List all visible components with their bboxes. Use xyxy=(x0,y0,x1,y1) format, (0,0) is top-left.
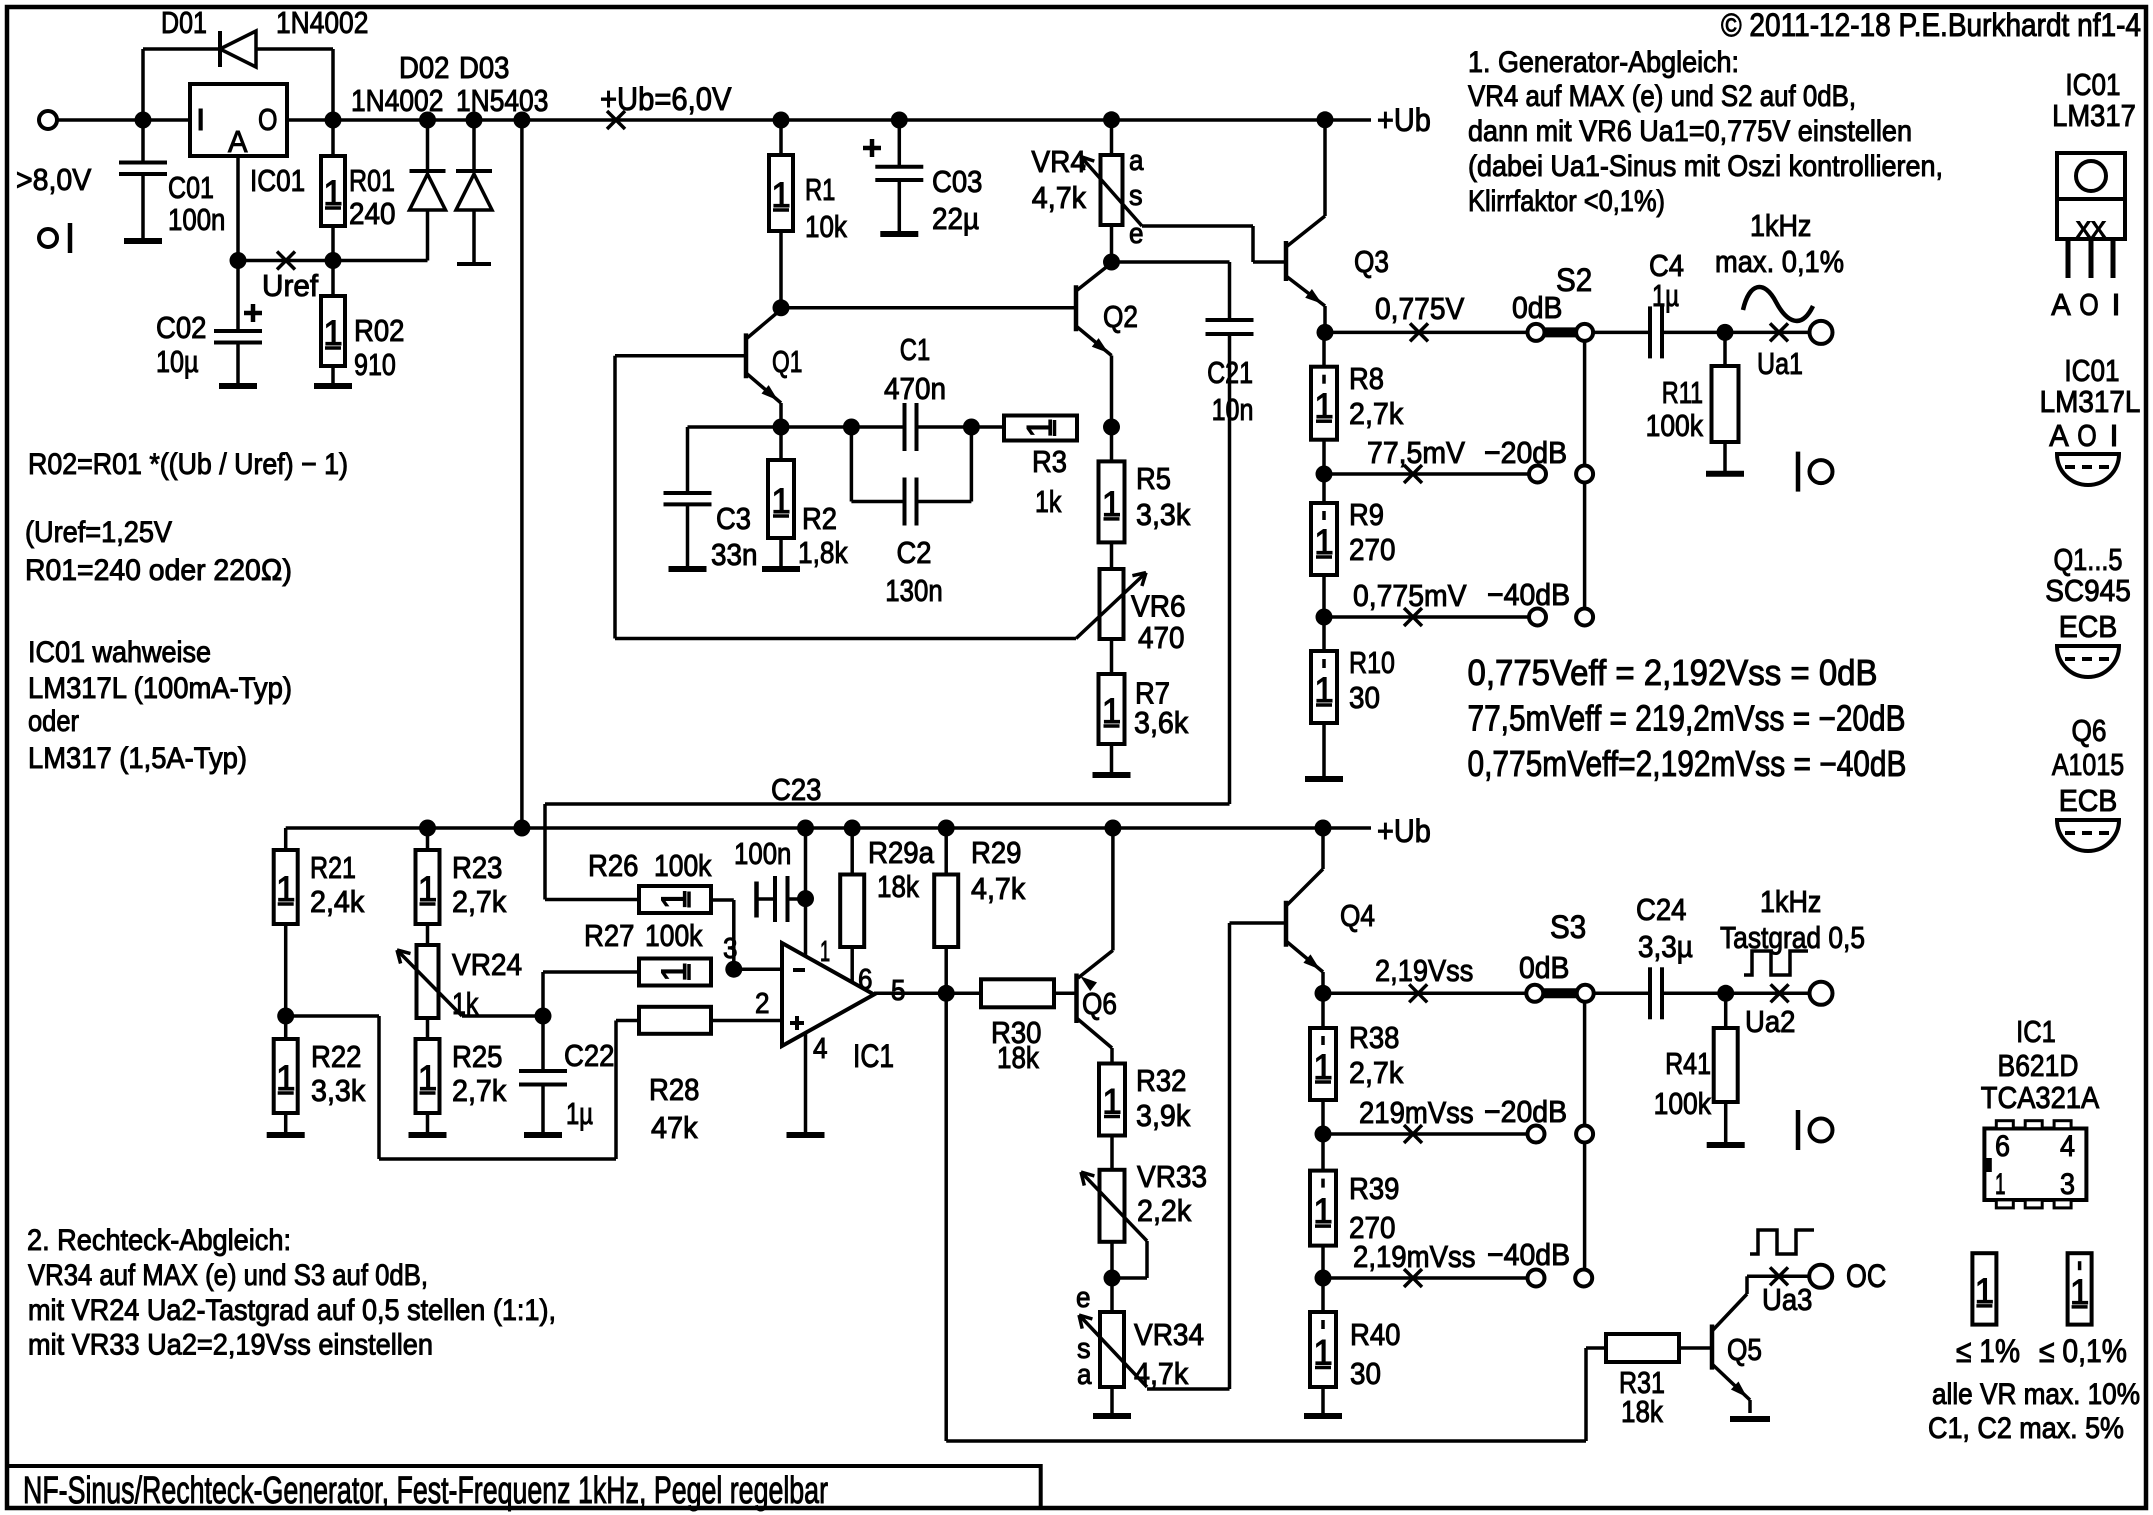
wiper wire VR34 to Q4 base xyxy=(1147,1387,1230,1391)
ground xyxy=(762,566,800,572)
wire xyxy=(1679,1346,1710,1350)
ground pin4 xyxy=(787,1132,825,1138)
ground xyxy=(669,566,707,572)
svg-text:0,775mV: 0,775mV xyxy=(1353,578,1467,613)
node lower rail x522 xyxy=(513,820,530,837)
ground xyxy=(219,383,257,389)
resistor R29a xyxy=(850,828,854,875)
svg-text:30: 30 xyxy=(1349,680,1380,715)
transistor Q1 xyxy=(744,333,749,378)
svg-text:−40dB: −40dB xyxy=(1487,1237,1570,1272)
node R23 rail xyxy=(419,820,436,837)
svg-text:I: I xyxy=(2111,287,2120,322)
node Q4 emitter xyxy=(1315,985,1332,1002)
svg-text:C24: C24 xyxy=(1636,892,1687,927)
title box xyxy=(7,1466,1041,1508)
resistor R02 xyxy=(331,261,335,297)
resistor R31 xyxy=(1606,1334,1679,1362)
svg-text:Uref: Uref xyxy=(262,268,318,303)
svg-text:3: 3 xyxy=(723,933,738,965)
sine symbol xyxy=(1743,287,1813,321)
wire op-amp to R31 xyxy=(944,993,948,1441)
svg-text:a: a xyxy=(1129,145,1144,177)
terminal signal ground lower xyxy=(1796,1110,1801,1150)
svg-text:+Ub=6,0V: +Ub=6,0V xyxy=(600,81,732,117)
resistor R23 xyxy=(426,828,430,850)
wire rail xyxy=(616,118,1371,122)
svg-text:Ua1: Ua1 xyxy=(1757,346,1803,381)
wire xyxy=(1662,992,1811,996)
op-amp IC1 xyxy=(782,943,874,1046)
transistor Q6 xyxy=(1074,974,1079,1024)
wire 2,19mVss xyxy=(1323,1276,1528,1280)
svg-text:47k: 47k xyxy=(651,1110,698,1145)
svg-text:33n: 33n xyxy=(711,537,758,572)
node -20dB lower xyxy=(1315,1126,1332,1143)
svg-text:VR34 auf MAX (e) und S3 auf 0d: VR34 auf MAX (e) und S3 auf 0dB, xyxy=(28,1259,428,1292)
svg-text:Tastgrad 0,5: Tastgrad 0,5 xyxy=(1720,920,1865,955)
node Q6 rail xyxy=(1104,820,1121,837)
svg-text:−40dB: −40dB xyxy=(1487,577,1570,612)
capacitor C21 xyxy=(1112,260,1230,264)
wire 0dB xyxy=(1325,331,1528,335)
ground xyxy=(524,1132,562,1138)
svg-text:R40: R40 xyxy=(1350,1317,1401,1352)
svg-text:18k: 18k xyxy=(877,869,919,904)
svg-text:C2: C2 xyxy=(897,535,932,570)
wire pin1 xyxy=(804,828,808,956)
ground VR34 xyxy=(1093,1413,1131,1419)
x mark +Ub xyxy=(607,111,625,129)
node C2 right xyxy=(963,419,980,436)
ground xyxy=(1093,772,1131,778)
diode D02 xyxy=(426,120,430,171)
svg-text:2,4k: 2,4k xyxy=(310,884,365,919)
ground Q5 xyxy=(1730,1416,1770,1422)
wire node to R28 xyxy=(286,1014,379,1018)
svg-text:C1: C1 xyxy=(900,332,930,367)
resistor R5 xyxy=(1110,427,1114,461)
svg-text:O: O xyxy=(258,102,278,137)
resistor R38 xyxy=(1321,993,1325,1028)
svg-text:C01: C01 xyxy=(168,170,214,205)
node R3 right xyxy=(1103,419,1120,436)
svg-text:R01=240 oder 220Ω): R01=240 oder 220Ω) xyxy=(25,554,292,587)
resistor R9 xyxy=(1322,474,1326,503)
resistor R11 xyxy=(1723,332,1727,366)
wire to lower section xyxy=(520,120,524,828)
capacitor C3 xyxy=(686,427,690,492)
svg-text:77,5mVeff = 219,2mVss = −20dB: 77,5mVeff = 219,2mVss = −20dB xyxy=(1468,698,1906,739)
node Q1 collector xyxy=(773,299,790,316)
pin4 ground wire xyxy=(804,1033,808,1133)
node VR33/VR34 xyxy=(1104,1270,1121,1287)
capacitor C22 xyxy=(541,1016,545,1070)
svg-text:219mVss: 219mVss xyxy=(1359,1095,1474,1130)
svg-text:A: A xyxy=(2051,287,2071,322)
svg-text:5: 5 xyxy=(891,975,906,1007)
node VR4/Q2/C21 xyxy=(1103,254,1120,271)
svg-text:1µ: 1µ xyxy=(1652,278,1679,313)
svg-text:77,5mV: 77,5mV xyxy=(1367,435,1465,470)
svg-text:R23: R23 xyxy=(452,850,503,885)
svg-text:LM317 (1,5A-Typ): LM317 (1,5A-Typ) xyxy=(28,742,247,775)
potentiometer VR6 xyxy=(1110,542,1114,569)
svg-text:Ua3: Ua3 xyxy=(1762,1282,1813,1317)
svg-text:I: I xyxy=(196,102,205,137)
capacitor C2 xyxy=(850,427,854,502)
svg-text:6: 6 xyxy=(858,964,873,996)
ground xyxy=(314,383,352,389)
switch S3 -40dB xyxy=(1528,1270,1545,1287)
svg-text:LM317L: LM317L xyxy=(2040,384,2141,419)
svg-text:R41: R41 xyxy=(1665,1046,1711,1081)
wire 219mVss xyxy=(1323,1132,1528,1136)
svg-text:A: A xyxy=(2049,418,2069,453)
node R29a rail xyxy=(844,820,861,837)
svg-text:LM317: LM317 xyxy=(2052,98,2136,133)
svg-text:IC1: IC1 xyxy=(2016,1014,2056,1049)
svg-text:R02=R01 *((Ub / Uref) − 1): R02=R01 *((Ub / Uref) − 1) xyxy=(28,448,348,481)
node C22 xyxy=(535,1008,552,1025)
svg-text:R10: R10 xyxy=(1349,645,1395,680)
svg-text:470: 470 xyxy=(1138,620,1185,655)
TO-220 package xyxy=(2057,153,2125,239)
wire 0dB lower xyxy=(1323,992,1526,996)
resistor R1 xyxy=(773,112,790,129)
svg-text:s: s xyxy=(1129,180,1143,212)
potentiometer VR33 xyxy=(1110,1136,1114,1170)
wire xyxy=(1593,331,1650,335)
svg-text:R21: R21 xyxy=(310,850,356,885)
input terminal - xyxy=(39,229,57,247)
svg-text:910: 910 xyxy=(354,347,396,382)
switch S3 -20dB xyxy=(1528,1126,1545,1143)
terminal Ua2 xyxy=(1810,982,1833,1005)
svg-text:TCA321A: TCA321A xyxy=(1981,1080,2100,1115)
svg-text:NF-Sinus/Rechteck-Generator, F: NF-Sinus/Rechteck-Generator, Fest-Freque… xyxy=(23,1470,828,1512)
transistor Q5 xyxy=(1710,1325,1715,1370)
svg-text:mit VR33 Ua2=2,19Vss einstelle: mit VR33 Ua2=2,19Vss einstellen xyxy=(28,1329,433,1362)
svg-text:R27: R27 xyxy=(584,918,635,953)
resistor R40 xyxy=(1321,1278,1325,1312)
transistor Q4 xyxy=(1284,901,1289,947)
resistor R8 xyxy=(1322,332,1326,366)
wire -40dB xyxy=(1324,615,1529,619)
svg-text:R5: R5 xyxy=(1136,461,1171,496)
svg-text:≤ 1%: ≤ 1% xyxy=(1956,1333,2020,1369)
svg-text:1k: 1k xyxy=(1035,484,1062,519)
svg-text:+Ub: +Ub xyxy=(1377,102,1431,138)
svg-text:IC01: IC01 xyxy=(250,163,305,198)
wire pin2 xyxy=(711,1019,782,1023)
svg-text:I: I xyxy=(2109,418,2118,453)
svg-text:max. 0,1%: max. 0,1% xyxy=(1715,244,1844,279)
square wave symbol OC xyxy=(1750,1230,1814,1254)
capacitor C1 xyxy=(903,403,907,451)
feedback wire xyxy=(613,356,617,639)
svg-text:0dB: 0dB xyxy=(1519,950,1570,985)
node -40dB lower xyxy=(1315,1270,1332,1287)
capacitor C03 + xyxy=(891,112,908,129)
svg-text:2. Rechteck-Abgleich:: 2. Rechteck-Abgleich: xyxy=(27,1224,291,1257)
svg-text:Q6: Q6 xyxy=(2072,713,2107,748)
svg-text:R29a: R29a xyxy=(868,835,935,870)
TO-92 outline 2 xyxy=(2057,646,2119,677)
regulator IC01 xyxy=(190,84,287,156)
svg-text:C1, C2 max. 5%: C1, C2 max. 5% xyxy=(1928,1412,2124,1445)
svg-text:2,7k: 2,7k xyxy=(1349,1055,1404,1090)
svg-text:Q5: Q5 xyxy=(1727,1332,1762,1367)
wire VR34 ground xyxy=(1110,1387,1114,1413)
svg-text:−20dB: −20dB xyxy=(1484,435,1567,470)
svg-text:2,2k: 2,2k xyxy=(1137,1193,1192,1228)
svg-text:0,775Veff = 2,192Vss = 0dB: 0,775Veff = 2,192Vss = 0dB xyxy=(1468,652,1878,693)
node R21/R22 xyxy=(277,1008,294,1025)
wire xyxy=(1054,992,1075,996)
svg-text:R1: R1 xyxy=(805,172,835,207)
svg-text:1,8k: 1,8k xyxy=(798,535,848,570)
svg-text:C03: C03 xyxy=(932,164,983,199)
capacitor C4 xyxy=(1648,306,1652,358)
wire xyxy=(1662,331,1811,335)
svg-text:VR33: VR33 xyxy=(1137,1159,1207,1194)
capacitor C02 + xyxy=(236,261,240,331)
ground xyxy=(1706,471,1744,477)
node Q3 emitter xyxy=(1317,324,1334,341)
svg-text:R28: R28 xyxy=(649,1072,700,1107)
svg-text:6: 6 xyxy=(1995,1130,2010,1163)
svg-text:© 2011-12-18 P.E.Burkhardt nf1: © 2011-12-18 P.E.Burkhardt nf1-4 xyxy=(1721,7,2141,43)
svg-text:4: 4 xyxy=(813,1033,828,1065)
resistor R39 xyxy=(1321,1134,1325,1171)
open stub xyxy=(68,223,73,253)
svg-text:270: 270 xyxy=(1349,532,1396,567)
wire Q1-Q2 xyxy=(781,306,1076,310)
DIP package IC1 xyxy=(1984,1129,2086,1201)
svg-text:D03: D03 xyxy=(459,50,510,85)
resistor R01 xyxy=(331,120,335,156)
svg-text:2,19mVss: 2,19mVss xyxy=(1353,1239,1476,1274)
svg-text:Q2: Q2 xyxy=(1103,299,1138,334)
svg-text:ECB: ECB xyxy=(2059,783,2118,818)
svg-text:100n: 100n xyxy=(734,836,791,871)
wire R26 to node3 xyxy=(711,898,734,902)
svg-text:LM317L (100mA-Typ): LM317L (100mA-Typ) xyxy=(28,672,292,705)
svg-text:C02: C02 xyxy=(156,310,207,345)
svg-text:IC01: IC01 xyxy=(2064,353,2119,388)
svg-text:30: 30 xyxy=(1350,1356,1381,1391)
wire to R27 xyxy=(541,972,545,1016)
svg-text:3,6k: 3,6k xyxy=(1134,705,1189,740)
svg-text:1: 1 xyxy=(1995,1168,2006,1201)
svg-text:SC945: SC945 xyxy=(2045,573,2131,608)
svg-text:A: A xyxy=(228,124,248,159)
svg-text:Q6: Q6 xyxy=(1082,986,1117,1021)
node O xyxy=(325,112,342,129)
x mark Uref xyxy=(277,252,295,270)
svg-text:C21: C21 xyxy=(1207,355,1253,390)
svg-text:C3: C3 xyxy=(716,501,751,536)
resistor R32 xyxy=(1110,1048,1114,1064)
node C2 left xyxy=(843,419,860,436)
svg-text:10µ: 10µ xyxy=(156,344,199,379)
svg-text:1µ: 1µ xyxy=(566,1096,593,1131)
ground xyxy=(1305,776,1343,782)
svg-text:−20dB: −20dB xyxy=(1484,1094,1567,1129)
svg-text:1kHz: 1kHz xyxy=(1750,208,1811,243)
wire -20dB xyxy=(1324,472,1529,476)
svg-text:VR24: VR24 xyxy=(452,947,522,982)
ground R40 xyxy=(1304,1413,1342,1419)
ground xyxy=(267,1132,305,1138)
svg-text:100k: 100k xyxy=(1646,408,1704,443)
svg-text:2,7k: 2,7k xyxy=(1349,396,1404,431)
svg-text:>8,0V: >8,0V xyxy=(16,162,92,197)
svg-text:ECB: ECB xyxy=(2059,609,2118,644)
ground R41 xyxy=(1707,1142,1745,1148)
svg-text:+Ub: +Ub xyxy=(1377,813,1431,849)
wire pin3 xyxy=(734,967,782,971)
svg-text:4,7k: 4,7k xyxy=(971,871,1026,906)
capacitor C01 xyxy=(141,120,145,161)
node -20dB xyxy=(1316,466,1333,483)
resistor R7 xyxy=(1110,639,1114,674)
wiper loop VR33 xyxy=(1145,1241,1149,1278)
node pin1 rail xyxy=(797,820,814,837)
svg-text:3,3µ: 3,3µ xyxy=(1638,929,1693,964)
svg-text:2,19Vss: 2,19Vss xyxy=(1375,953,1473,988)
svg-text:Q4: Q4 xyxy=(1340,898,1375,933)
resistor R22 xyxy=(274,1039,298,1113)
svg-text:C23: C23 xyxy=(771,772,822,807)
svg-text:R25: R25 xyxy=(452,1039,503,1074)
svg-text:3: 3 xyxy=(2060,1168,2075,1201)
node input/C01 xyxy=(135,112,152,129)
svg-text:OC: OC xyxy=(1846,1258,1886,1294)
resistor R26 xyxy=(639,886,711,913)
svg-text:4,7k: 4,7k xyxy=(1134,1356,1189,1391)
node pin3 xyxy=(725,961,742,978)
svg-text:R26: R26 xyxy=(588,848,639,883)
transistor Q2 xyxy=(1074,285,1079,331)
wire op-amp output xyxy=(874,992,981,996)
svg-text:0,775V: 0,775V xyxy=(1375,291,1465,326)
svg-text:4: 4 xyxy=(2060,1130,2075,1163)
svg-text:240: 240 xyxy=(349,196,396,231)
svg-text:100n: 100n xyxy=(168,202,225,237)
svg-text:(Uref=1,25V: (Uref=1,25V xyxy=(25,516,172,549)
svg-text:0,775mVeff=2,192mVss = −40dB: 0,775mVeff=2,192mVss = −40dB xyxy=(1468,743,1907,784)
svg-text:dann mit VR6 Ua1=0,775V einste: dann mit VR6 Ua1=0,775V einstellen xyxy=(1468,115,1912,148)
TO-92 outline 3 xyxy=(2057,820,2119,851)
svg-text:2,7k: 2,7k xyxy=(452,1073,507,1108)
potentiometer VR24 xyxy=(426,924,430,945)
svg-text:Ua2: Ua2 xyxy=(1745,1004,1796,1039)
node Q1 emitter xyxy=(773,419,790,436)
svg-text:3,9k: 3,9k xyxy=(1136,1098,1191,1133)
TO-92 outline 1 xyxy=(2057,454,2119,485)
node output xyxy=(938,985,955,1002)
svg-text:VR4 auf MAX (e) und S2 auf 0dB: VR4 auf MAX (e) und S2 auf 0dB, xyxy=(1468,80,1856,113)
svg-text:R38: R38 xyxy=(1349,1020,1400,1055)
svg-text:10n: 10n xyxy=(1212,392,1254,427)
svg-text:18k: 18k xyxy=(1621,1394,1663,1429)
svg-text:VR34: VR34 xyxy=(1134,1317,1204,1352)
resistor R27 xyxy=(639,959,711,986)
svg-text:O: O xyxy=(2077,418,2097,453)
svg-text:Q1: Q1 xyxy=(772,344,802,379)
wire xyxy=(1594,992,1650,996)
input terminal + xyxy=(39,111,57,129)
potentiometer VR34 xyxy=(1110,1278,1114,1312)
node R01/R02 xyxy=(325,252,342,269)
svg-text:22µ: 22µ xyxy=(932,201,979,236)
svg-text:Q3: Q3 xyxy=(1354,244,1389,279)
svg-text:D02: D02 xyxy=(399,50,450,85)
svg-text:A1015: A1015 xyxy=(2052,747,2124,782)
svg-text:mit VR24 Ua2-Tastgrad auf 0,5: mit VR24 Ua2-Tastgrad auf 0,5 stellen (1… xyxy=(28,1294,556,1327)
svg-text:R8: R8 xyxy=(1349,361,1384,396)
svg-text:VR6: VR6 xyxy=(1131,589,1186,624)
svg-text:R02: R02 xyxy=(354,313,405,348)
resistor R29 xyxy=(944,828,948,875)
svg-text:R22: R22 xyxy=(311,1039,362,1074)
wire xyxy=(287,118,616,122)
wire C23 xyxy=(545,802,1230,806)
svg-text:18k: 18k xyxy=(997,1040,1039,1075)
svg-text:B621D: B621D xyxy=(1998,1048,2079,1083)
svg-text:R9: R9 xyxy=(1349,497,1384,532)
diode D03 xyxy=(472,120,476,171)
ground xyxy=(124,238,162,244)
svg-text:R39: R39 xyxy=(1349,1171,1400,1206)
terminal signal ground upper xyxy=(1796,452,1801,492)
resistor R25 xyxy=(426,1018,430,1039)
node Q3 collector rail xyxy=(1317,111,1334,128)
svg-text:IC01: IC01 xyxy=(2065,67,2120,102)
node A/C02 xyxy=(230,252,247,269)
svg-text:IC01 wahweise: IC01 wahweise xyxy=(28,636,211,669)
node rail to lower section xyxy=(513,112,530,129)
ground xyxy=(409,1132,447,1138)
wire xyxy=(57,118,190,122)
terminal OC xyxy=(1809,1265,1832,1288)
terminal Ua1 xyxy=(1810,321,1833,344)
svg-text:1kHz: 1kHz xyxy=(1760,884,1821,919)
svg-text:2: 2 xyxy=(755,988,770,1020)
svg-text:R2: R2 xyxy=(802,501,837,536)
svg-text:10k: 10k xyxy=(805,209,847,244)
svg-text:R32: R32 xyxy=(1136,1063,1187,1098)
wire xyxy=(1110,1242,1114,1278)
svg-text:e: e xyxy=(1129,218,1144,250)
svg-text:(dabei Ua1-Sinus mit Oszi kont: (dabei Ua1-Sinus mit Oszi kontrollieren, xyxy=(1468,150,1943,183)
svg-text:470n: 470n xyxy=(884,371,946,406)
svg-text:100k: 100k xyxy=(654,848,712,883)
tolerance legend 0,1% xyxy=(2068,1253,2092,1324)
wiper wire VR24 xyxy=(462,1014,543,1018)
svg-text:alle VR max. 10%: alle VR max. 10% xyxy=(1932,1378,2140,1411)
svg-text:D01: D01 xyxy=(161,5,207,40)
wiper wire VR4 xyxy=(1142,224,1253,228)
tolerance legend 1% xyxy=(1972,1253,1996,1324)
svg-text:R29: R29 xyxy=(971,835,1022,870)
potentiometer VR4 xyxy=(1103,111,1120,128)
x mark Ua2 xyxy=(1771,984,1789,1002)
svg-text:1. Generator-Abgleich:: 1. Generator-Abgleich: xyxy=(1468,46,1739,79)
svg-text:100k: 100k xyxy=(645,918,703,953)
